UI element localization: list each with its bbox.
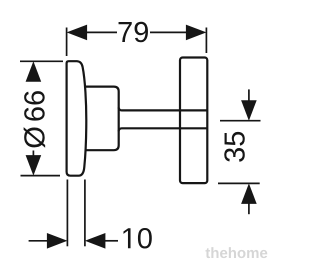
arrow 35 up bbox=[241, 183, 257, 204]
dim text D66 bbox=[24, 91, 46, 148]
dim text 35 bbox=[224, 132, 245, 162]
dim D66 extension bottom bbox=[21, 175, 61, 177]
arrow 79 right bbox=[186, 25, 207, 41]
dim 35 stub below bbox=[248, 203, 250, 215]
dim 10 extension left bbox=[66, 180, 68, 247]
dim D66 stub below text bbox=[32, 151, 34, 158]
stem top line bbox=[119, 108, 207, 110]
arrow 79 left bbox=[67, 25, 88, 41]
dim 10 extension right bbox=[84, 180, 86, 247]
arrow D66 up bbox=[26, 61, 42, 82]
dim 79 line right segment bbox=[150, 31, 187, 33]
handle bar bbox=[180, 58, 207, 184]
dim text 10 bbox=[123, 228, 151, 249]
arrow 10 left bbox=[85, 233, 106, 249]
dim 35 stub above bbox=[248, 89, 250, 101]
dim 10 tail left bbox=[29, 240, 49, 242]
stem bottom line bbox=[119, 128, 207, 130]
dim 35 extension bottom bbox=[218, 182, 260, 184]
dim 79 line left segment bbox=[86, 31, 117, 33]
dim 79 extension left bbox=[66, 28, 68, 57]
dim D66 extension top bbox=[20, 60, 63, 62]
hub cap bbox=[86, 87, 119, 151]
watermark thehome bbox=[205, 247, 267, 258]
dim 10 tail right bbox=[104, 240, 118, 242]
dim 35 extension top bbox=[220, 120, 261, 122]
arrow 10 right bbox=[47, 233, 68, 249]
arrow D66 down bbox=[26, 155, 42, 176]
escutcheon dome profile bbox=[67, 61, 87, 176]
arrow 35 down bbox=[241, 100, 257, 121]
dim 79 extension right bbox=[205, 28, 207, 54]
dim text 79 bbox=[119, 22, 148, 43]
